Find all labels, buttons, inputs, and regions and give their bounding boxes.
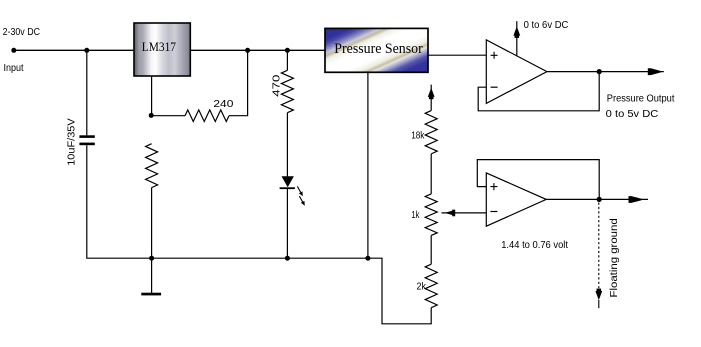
wire: 18k to 1k [430, 154, 432, 194]
wire: capacitor bottom to bus corner [87, 145, 368, 258]
resistor R3 470 [281, 70, 293, 112]
node: U2 output [597, 69, 602, 74]
arrow: pressure output right [648, 68, 661, 75]
node: adj junction [149, 113, 154, 118]
svg-text:470: 470 [271, 74, 282, 97]
wire: sensor ground pin down to bus [367, 72, 369, 258]
svg-text:2-30v DC: 2-30v DC [3, 27, 40, 38]
svg-text:Input: Input [4, 63, 24, 74]
node: 470 branch junction [285, 48, 290, 53]
wire: R1 bottom to bus [151, 188, 153, 259]
wire: bus right end down and to divider bottom [368, 258, 431, 324]
svg-text:240: 240 [213, 99, 234, 110]
svg-text:10uF/35V: 10uF/35V [66, 118, 77, 166]
svg-text:18k: 18k [411, 130, 425, 141]
node: U3 output [597, 197, 602, 202]
wire: 1k to 2k [430, 235, 432, 264]
svg-text:0 to 5v DC: 0 to 5v DC [606, 109, 659, 120]
resistor R4 18k [425, 111, 437, 154]
arrow: floating output right [629, 196, 642, 203]
label: 18k [411, 130, 425, 141]
wire: 240 to output riser [229, 50, 248, 115]
capacitor C1 plates [79, 135, 94, 145]
label: 10uF/35V (rotated) [66, 118, 77, 166]
svg-text:2k: 2k [417, 281, 427, 292]
label: Input [4, 63, 24, 74]
arrow: power up [513, 26, 520, 38]
label: 0 to 5v DC [606, 109, 659, 120]
wire: capacitor branch from junction [86, 50, 88, 135]
wire: ground stub [151, 258, 153, 293]
wire: 470 to LED [286, 113, 288, 177]
arrow: divider top pointing up [428, 85, 435, 111]
svg-text:1k: 1k [411, 210, 420, 221]
svg-text:Floating ground: Floating ground [608, 218, 620, 297]
wire: LED cathode to bus [286, 189, 288, 258]
resistor R6 2k [425, 264, 437, 308]
node: 240 feedback junction [245, 48, 250, 53]
wire: LM317 adj pin down [151, 76, 153, 115]
svg-text:Pressure Sensor: Pressure Sensor [334, 41, 423, 57]
label: 1k [411, 210, 420, 221]
svg-text:0 to 6v DC: 0 to 6v DC [524, 20, 569, 31]
ground symbol [141, 293, 161, 296]
regulator U1 LM317 [134, 23, 190, 76]
LED D1 [280, 176, 295, 189]
svg-text:1.44 to 0.76 volt: 1.44 to 0.76 volt [501, 240, 568, 251]
op-amp U2 (top) [486, 40, 547, 104]
label: 470 (rotated) [271, 74, 282, 97]
op-amp U3 (bottom) [486, 173, 546, 226]
node: junction above capacitor [84, 48, 89, 53]
svg-text:LM317: LM317 [142, 40, 176, 54]
wire: U3 output [546, 198, 648, 200]
wire: sensor output to op-amp U2 + [428, 54, 486, 56]
node: bus at LED [285, 256, 290, 261]
wire: adj junction to 240 resistor [152, 115, 185, 117]
svg-text:Pressure Output: Pressure Output [607, 94, 675, 105]
wire: floating ground dashed [598, 203, 600, 289]
label: 2-30v DC [3, 27, 40, 38]
wire: wiper tap to U3 - input [442, 212, 487, 214]
label: 240 [213, 99, 234, 110]
resistor R1 (adj to ground) [146, 144, 158, 188]
wire: U2 power pin [516, 21, 518, 56]
label: Pressure Output [607, 94, 675, 105]
wire: 470 branch down [286, 50, 288, 70]
label: Floating ground (rotated) [608, 218, 620, 297]
sensor module: Pressure Sensor [325, 28, 428, 72]
resistor R5 1k [425, 194, 437, 236]
wire: U2 output [547, 71, 664, 73]
wire: U2 feedback loop [478, 72, 599, 111]
node: bus at sensor pin [365, 256, 370, 261]
label: 1.44 to 0.76 volt [501, 240, 568, 251]
LED light arrows [297, 186, 304, 205]
arrow: floating ground down [595, 289, 602, 309]
arrow: wiper pointing left [445, 210, 456, 217]
node: bus at ground [149, 256, 154, 261]
label: 2k [417, 281, 427, 292]
node: input terminal [11, 48, 16, 53]
resistor R2 240 [185, 110, 229, 122]
wire: U3 feedback over top [477, 160, 599, 200]
wire: input to LM317 [14, 49, 134, 51]
label: 0 to 6v DC [524, 20, 569, 31]
wire: LM317 output to sensor [190, 49, 325, 51]
